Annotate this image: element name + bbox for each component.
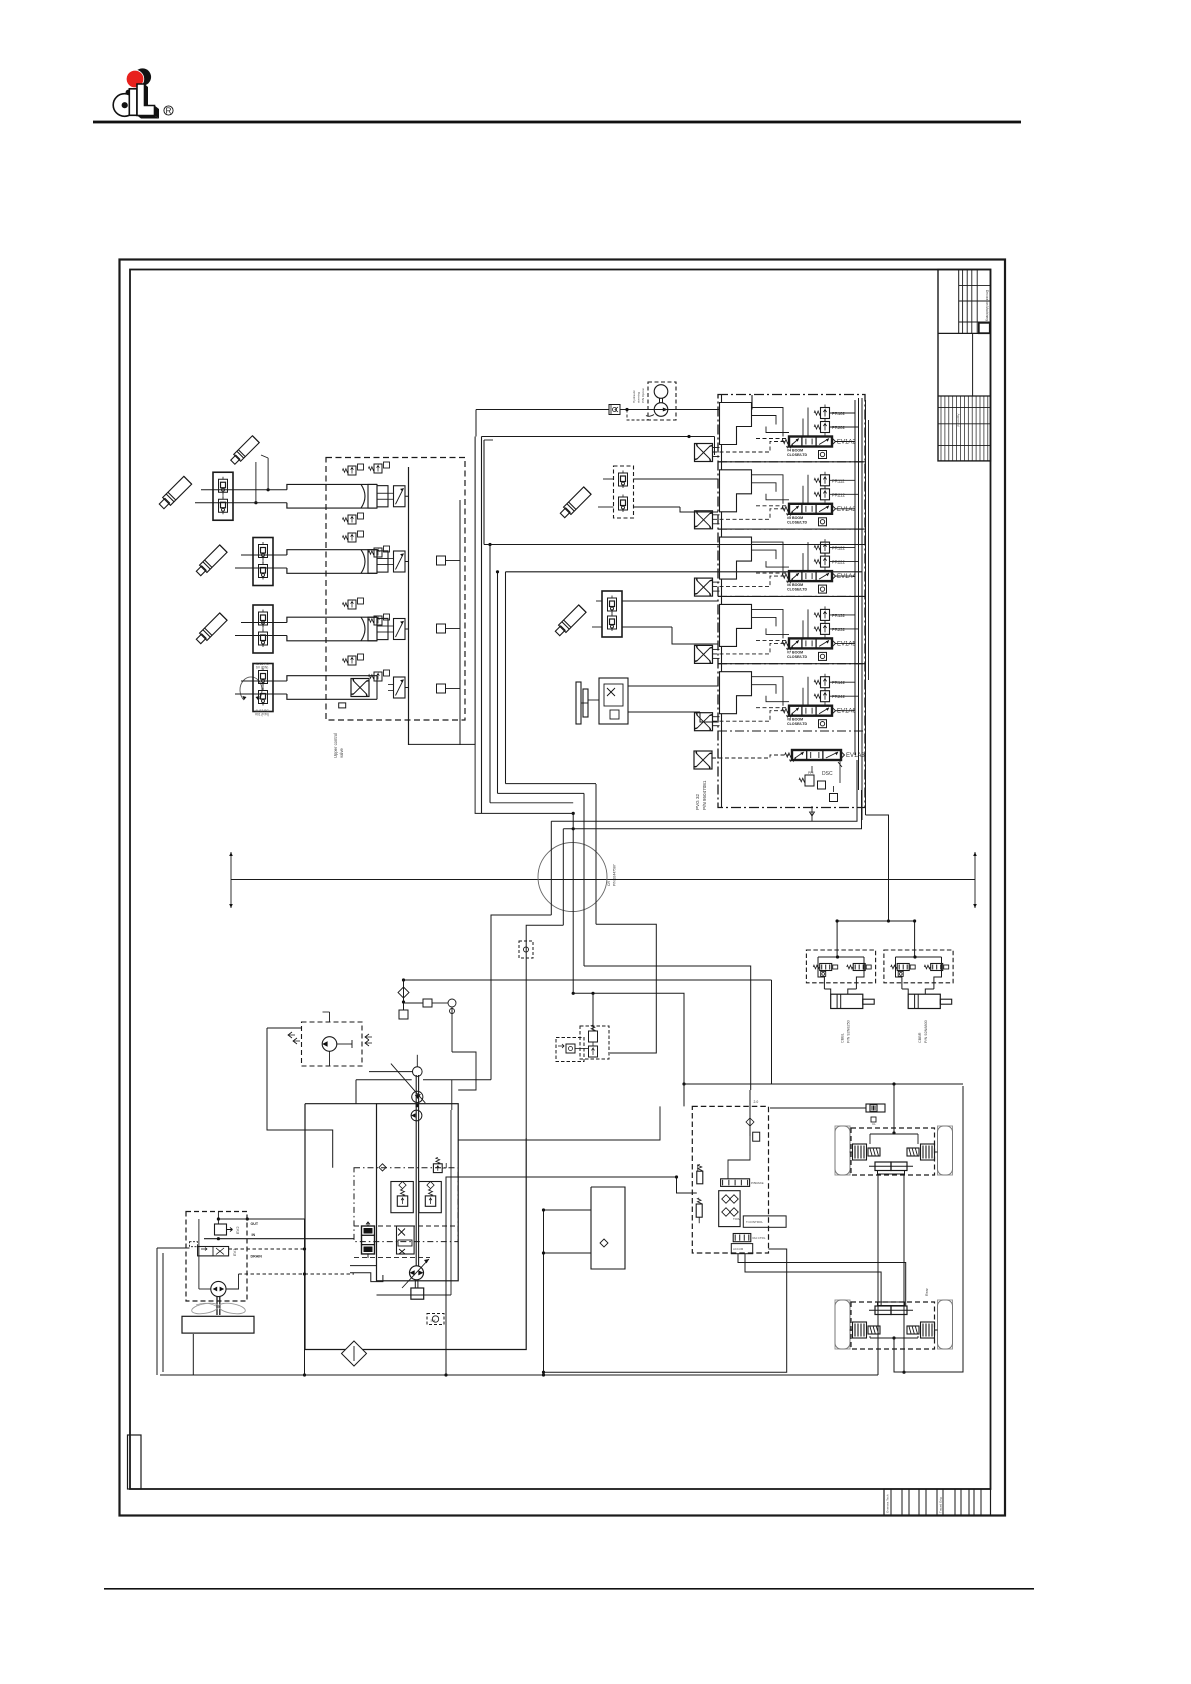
row2 port relief <box>342 531 363 542</box>
PVG32 right bus lines <box>855 398 869 820</box>
svg-text:PR142: PR142 <box>832 680 845 685</box>
PVG32 section divider 4 <box>718 663 865 665</box>
wire bundle to sensor drop <box>526 925 563 1138</box>
svg-text:EV1A2: EV1A2 <box>837 440 856 446</box>
svg-text:IN: IN <box>252 1233 256 1237</box>
svg-text:EV2: EV2 <box>235 1226 240 1234</box>
PVG return wires to center <box>551 760 861 829</box>
wire sensor drop2 <box>0 0 1 1</box>
row4 right small box <box>437 684 461 693</box>
fan motor dashed unit <box>288 1012 372 1066</box>
PVG32 section dash-dot dividers <box>718 462 865 731</box>
svg-text:PR232: PR232 <box>832 627 845 632</box>
upper control valve dashed boundary <box>326 458 465 721</box>
wire vertical x594 to CBB <box>593 918 595 921</box>
row4 relief b <box>368 670 389 681</box>
top horizontal rule <box>93 121 1021 124</box>
svg-text:CLOSE/LTD: CLOSE/LTD <box>787 722 808 726</box>
pressure switch on pilot drop <box>519 941 533 958</box>
rotary joint label <box>607 864 617 886</box>
row5 check box dashed <box>614 466 634 518</box>
svg-text:CL: CL <box>872 1122 876 1126</box>
svg-text:DRAIN: DRAIN <box>251 1255 263 1259</box>
pump top feed wires <box>356 1007 491 1110</box>
svg-text:CLOSE/LTD: CLOSE/LTD <box>787 655 808 659</box>
svg-text:T.CONTROL: T.CONTROL <box>746 1220 763 1224</box>
wire left big L1 <box>484 440 866 545</box>
svg-text:P/N Option: P/N Option <box>641 388 645 403</box>
svg-text:P/N 95047081: P/N 95047081 <box>702 780 707 810</box>
PVG32 label <box>695 780 707 810</box>
rear axle feed wires <box>738 1254 906 1306</box>
bottom strip cells <box>884 1489 991 1516</box>
pilot pump note text <box>632 388 645 403</box>
wire mid drop A <box>689 437 715 456</box>
wire pump to right A <box>444 1177 676 1377</box>
svg-text:P/N 92447587: P/N 92447587 <box>613 864 617 886</box>
svg-text:PR202: PR202 <box>832 425 845 430</box>
pilot supply wire <box>476 395 752 420</box>
svg-text:Upper control: Upper control <box>333 733 338 758</box>
travel block drop to tank <box>543 1210 545 1375</box>
svg-text:4L/13 PG: 4L/13 PG <box>255 662 269 666</box>
lower assembly enclosure <box>305 1104 526 1350</box>
row2 right small box <box>437 556 461 565</box>
actuator row7 plates <box>576 682 588 724</box>
svg-text:RH CTRL: RH CTRL <box>753 1236 766 1240</box>
filter diamond on enclosure <box>342 1341 367 1366</box>
svg-text:SW: SW <box>431 1319 436 1323</box>
row6 lines <box>592 601 718 644</box>
actuator row7 box <box>588 678 628 724</box>
svg-text:P/N 92N8250: P/N 92N8250 <box>846 1020 850 1043</box>
PVG32 section divider 2 <box>718 528 865 530</box>
logo Daewoo dL <box>113 68 173 118</box>
rear axle assembly <box>835 1086 963 1372</box>
tank line <box>160 1334 878 1377</box>
frame inner border <box>130 270 991 1490</box>
pilot pump circles <box>646 385 668 417</box>
row2 diagonal cylinder <box>195 545 227 577</box>
pilot none <box>0 0 1 1</box>
upper control valve label <box>333 733 344 758</box>
wire acc down <box>593 1059 648 1106</box>
svg-text:Hydraulic: Hydraulic <box>632 390 636 403</box>
svg-text:P.BRAKE: P.BRAKE <box>751 1181 764 1185</box>
svg-text:P/N 92N8800: P/N 92N8800 <box>924 1020 928 1043</box>
pilot wire y966 <box>584 966 751 1090</box>
svg-text:CR: CR <box>607 881 611 886</box>
accumulator feed wire <box>591 924 656 1053</box>
row2 service check box + cylinder <box>235 538 409 586</box>
travel return loop wire <box>542 1249 787 1374</box>
PVG32 section 6 DSC end-cap <box>694 750 866 816</box>
left drop wires to row1 <box>475 410 481 814</box>
svg-text:CBBR: CBBR <box>918 1032 922 1043</box>
travel control valve block <box>675 1090 786 1254</box>
PVG32 dash-dot boundary <box>718 395 865 808</box>
svg-text:#7 BOOM: #7 BOOM <box>787 650 803 654</box>
svg-text:#5 BOOM: #5 BOOM <box>787 516 803 520</box>
svg-text:PR222: PR222 <box>832 560 845 565</box>
row4 swing motor row <box>235 664 409 712</box>
svg-text:PR212: PR212 <box>832 492 845 497</box>
svg-text:PVG 32: PVG 32 <box>695 793 700 810</box>
second top wire <box>482 410 715 456</box>
row1 top anti-cavitation pair <box>342 464 363 475</box>
wire CBB junction <box>836 919 891 922</box>
bucket cylinder row1b - diagonal cylinder <box>229 436 259 466</box>
svg-text:Decoration Machinery: Decoration Machinery <box>985 290 989 321</box>
fan drain risers <box>0 0 1 1</box>
wire bundle right to CBB <box>837 908 916 957</box>
upper valve right bus wires <box>460 543 506 803</box>
svg-text:CLOSE/LTD: CLOSE/LTD <box>787 453 808 457</box>
PVG wire big loop right <box>866 815 889 908</box>
svg-text:#8 BOOM: #8 BOOM <box>787 718 803 722</box>
trailer brake cylinder CL <box>845 1104 885 1126</box>
fan motor small box on boundary <box>339 703 346 708</box>
svg-text:Rear: Rear <box>925 1287 929 1296</box>
row4 port relief <box>342 654 363 665</box>
pilot wire y993 <box>572 992 686 1086</box>
boom cylinder row1 - diagonal cylinder <box>158 476 192 510</box>
PVG32 section 1 (EV1A2) <box>694 403 858 462</box>
svg-text:PR112: PR112 <box>832 478 845 483</box>
brake valve box <box>542 1187 625 1269</box>
wire bundle right to CBB left <box>836 921 838 957</box>
upper valve bus line B <box>459 500 461 712</box>
bundle top links <box>409 744 597 813</box>
wire from bundle to pump P <box>491 915 551 1080</box>
svg-text:steering: steering <box>637 392 641 403</box>
title block table <box>938 270 991 461</box>
row3 diagonal cylinder <box>195 613 227 645</box>
pilot return wire <box>402 978 772 1084</box>
pilot pump dashed box <box>648 382 676 420</box>
svg-text:OUT: OUT <box>251 1222 259 1226</box>
rear axle label <box>925 1287 929 1296</box>
bottom horizontal rule <box>104 1588 1034 1590</box>
svg-text:2.0: 2.0 <box>754 1100 759 1104</box>
PVG32 section 4 (EV1A5) <box>694 604 858 663</box>
PVG32 section divider 1 <box>718 461 865 463</box>
pump block right dashed boundary <box>377 1110 452 1295</box>
wire long mid <box>458 1084 963 1140</box>
PVG32 section divider 3 <box>718 595 865 597</box>
pilot accumulator assembly <box>555 1022 611 1068</box>
frame outer border <box>120 260 1006 1516</box>
front axle assembly <box>835 1084 953 1375</box>
PVG32 section 2 (EV1A3) <box>694 470 858 529</box>
svg-text:#6 BOOM: #6 BOOM <box>787 583 803 587</box>
row2 relief b <box>368 546 389 557</box>
frame revision tab left-bottom <box>128 1435 142 1489</box>
wire left big L2 <box>506 571 863 573</box>
svg-text:#4 BOOM: #4 BOOM <box>787 449 803 453</box>
svg-text:PR132: PR132 <box>832 613 845 618</box>
fan OUT wire drop <box>303 1219 306 1377</box>
CBBL counterbalance unit <box>806 950 875 1043</box>
svg-text:TOW: TOW <box>733 1217 740 1221</box>
PVG32 section 5 (EV1A6) <box>694 672 858 731</box>
svg-text:ACCUM: ACCUM <box>733 1247 744 1251</box>
svg-text:valve: valve <box>339 748 344 758</box>
pilot line inline valve <box>609 405 620 415</box>
svg-text:EV1A5: EV1A5 <box>837 641 856 647</box>
svg-text:Traced Orig: Traced Orig <box>939 1497 943 1513</box>
takeoff small box <box>404 999 457 1014</box>
svg-text:CBBL: CBBL <box>840 1033 844 1043</box>
svg-text:EV1A6: EV1A6 <box>837 709 856 715</box>
main hydraulic pump block <box>350 1055 458 1299</box>
svg-text:R: R <box>166 106 172 115</box>
svg-text:DSC: DSC <box>822 771 833 777</box>
row3 right small box <box>437 624 461 633</box>
row3 service check box + cylinder <box>235 605 409 653</box>
fan drive unit (EV1 EV2 fan motor) <box>182 1212 354 1334</box>
row4 labels <box>255 662 269 717</box>
svg-text:#01 (P/N): #01 (P/N) <box>255 713 269 717</box>
svg-text:PR122: PR122 <box>832 546 845 551</box>
row1 bucket cyl drop lines <box>254 455 269 504</box>
upper valve bus line A <box>408 467 410 745</box>
stabilizer cylinder row6 - diagonal <box>554 605 586 637</box>
svg-text:CLOSE/LTD: CLOSE/LTD <box>787 520 808 524</box>
svg-text:SV (P/N): SV (P/N) <box>256 666 269 670</box>
PVG32 section 3 (EV1A4) <box>694 537 858 596</box>
row1 bottom anti-cavitation pair <box>342 513 363 524</box>
wire lower-left riser <box>157 1028 333 1375</box>
svg-text:PR242: PR242 <box>832 694 845 699</box>
row3 relief b <box>368 614 389 625</box>
PVG32 left supply line <box>721 395 723 808</box>
svg-text:PPI: PPI <box>808 771 814 775</box>
filter on vertical <box>398 980 409 1010</box>
rotary joint circle <box>538 843 607 912</box>
row1 service check box + boom cylinder <box>195 472 409 520</box>
row1 relief pair b <box>368 462 389 473</box>
row7 lines <box>628 686 718 722</box>
svg-text:Approved: Approved <box>957 414 961 427</box>
small box below <box>399 1010 408 1019</box>
wire fan feed <box>0 0 1 1</box>
svg-text:CLOSE/LTD: CLOSE/LTD <box>787 588 808 592</box>
svg-text:EV1A3: EV1A3 <box>837 507 856 513</box>
row6 check box <box>602 591 622 637</box>
row4 swing arc symbol <box>240 677 262 700</box>
axle supply wires <box>770 1082 896 1108</box>
svg-text:PR102: PR102 <box>832 411 845 416</box>
swivel boundary line <box>229 852 977 908</box>
stabilizer cylinder row5 - diagonal <box>559 487 591 519</box>
row3 port relief <box>342 598 363 609</box>
CBBR counterbalance unit <box>884 950 953 1043</box>
swivel bundle wires <box>551 784 596 993</box>
wire right bus down <box>0 0 1 1</box>
svg-text:Oversea Tech: Oversea Tech <box>886 1494 890 1513</box>
row5 lines <box>598 479 718 512</box>
svg-text:EV1A4: EV1A4 <box>837 574 856 580</box>
SW gauge box <box>427 1314 444 1325</box>
